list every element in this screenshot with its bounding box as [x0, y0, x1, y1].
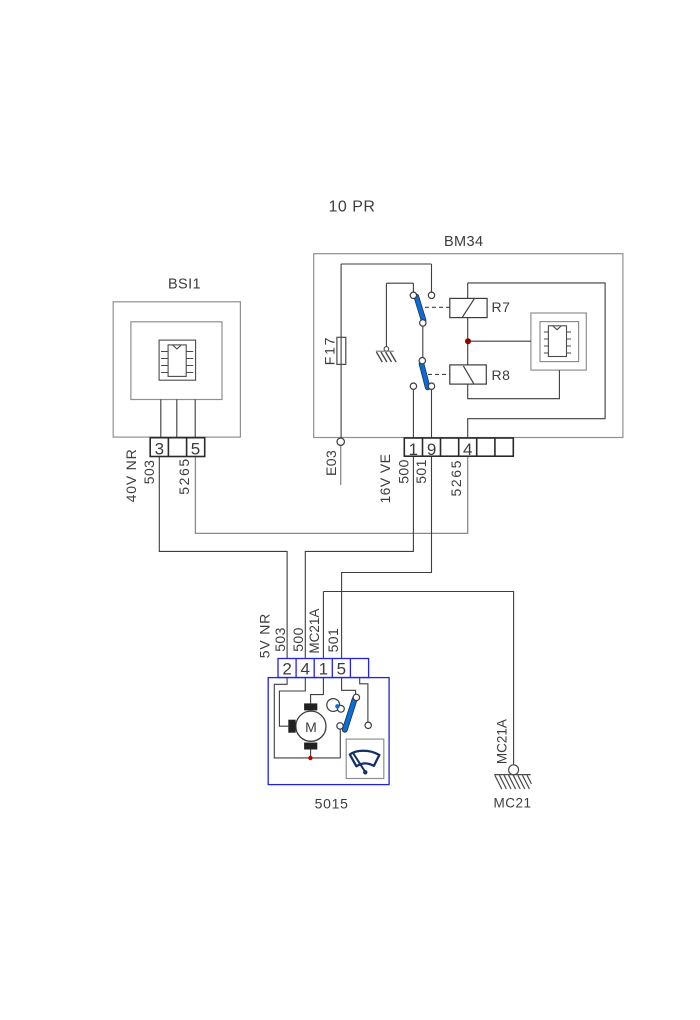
svg-text:2: 2 [282, 660, 291, 679]
svg-text:F17: F17 [322, 336, 338, 366]
svg-text:5: 5 [337, 660, 346, 679]
svg-text:MC21A: MC21A [307, 609, 322, 654]
svg-text:BM34: BM34 [444, 234, 483, 250]
svg-text:3: 3 [155, 440, 164, 459]
svg-text:40V NR: 40V NR [123, 448, 139, 502]
svg-text:10 PR: 10 PR [329, 199, 376, 216]
svg-text:M: M [305, 719, 317, 735]
svg-text:500: 500 [395, 459, 411, 484]
svg-text:1: 1 [409, 440, 418, 459]
svg-text:R8: R8 [492, 367, 511, 383]
svg-text:MC21: MC21 [493, 796, 531, 811]
svg-text:BSI1: BSI1 [168, 276, 201, 292]
svg-text:501: 501 [325, 628, 341, 653]
svg-text:E03: E03 [323, 450, 339, 476]
svg-text:500: 500 [290, 627, 306, 652]
svg-text:5265: 5265 [176, 457, 192, 495]
svg-text:503: 503 [141, 460, 157, 485]
svg-text:503: 503 [272, 627, 288, 652]
svg-text:5: 5 [191, 440, 200, 459]
svg-text:501: 501 [413, 459, 429, 484]
svg-text:1: 1 [319, 660, 328, 679]
svg-text:5265: 5265 [448, 459, 464, 497]
svg-text:5015: 5015 [315, 795, 349, 811]
svg-text:4: 4 [300, 660, 309, 679]
svg-text:MC21A: MC21A [495, 719, 510, 764]
svg-text:4: 4 [463, 440, 472, 459]
svg-text:9: 9 [427, 440, 436, 459]
svg-text:5V NR: 5V NR [257, 613, 273, 658]
svg-text:16V VE: 16V VE [377, 454, 393, 504]
svg-text:R7: R7 [492, 299, 511, 315]
